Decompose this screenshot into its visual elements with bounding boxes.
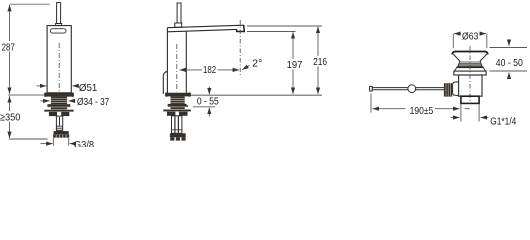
faucet body (side view) (47, 26, 71, 93)
middle nut (168, 104, 188, 107)
dimension 287 upper segment with up arrow (9, 5, 11, 41)
svg-text:182: 182 (203, 65, 216, 76)
197 lower arrow (down at deck) (292, 69, 294, 94)
G1 1/4 extension lines (461, 104, 479, 122)
supply hose tube (56, 116, 62, 131)
middle hose fitting feet (170, 137, 174, 140)
washer (widest) (44, 110, 73, 112)
svg-text:Ø34 - 37: Ø34 - 37 (77, 97, 109, 108)
extension line top (287) (10, 3, 50, 5)
middle threaded shank (171, 96, 185, 104)
rod ball joint (408, 85, 416, 93)
G1 1/4 left arrow (outside pointing right) (451, 117, 460, 119)
rod end cap (370, 86, 373, 91)
skirt to collar (454, 68, 485, 71)
svg-text:2°: 2° (252, 59, 262, 70)
spout end-on window (50, 29, 66, 33)
dimension arrow right (diameter 51) (72, 85, 77, 87)
tailpiece (thick) (461, 96, 479, 103)
svg-text:0 - 55: 0 - 55 (197, 97, 219, 108)
spout bottom line (167, 29, 236, 31)
body centerline dashed (58, 43, 60, 92)
197 upper arrow (up) (292, 32, 294, 59)
mounting nut (47, 104, 70, 107)
0-55 lower extension line (193, 106, 215, 108)
spout tip and aerator (237, 25, 245, 31)
middle centerline dashed (176, 44, 178, 92)
dimension 287 lower segment with down arrow at deck (9, 52, 11, 94)
middle hose fitting block (170, 133, 186, 137)
182 dimension left arrow at centerline (180, 69, 202, 71)
middle washer widest (163, 109, 191, 111)
ridge band (458, 61, 482, 67)
hose end fitting lower (hatched) (53, 134, 69, 137)
body right edge (185, 32, 187, 93)
dimension &ge;350 lower segment with down arrow at hose end line (9, 122, 11, 139)
diameter 63 extension line left (452, 34, 454, 49)
svg-text:G1*1/4: G1*1/4 (490, 117, 516, 128)
svg-text:190±5: 190±5 (410, 106, 434, 117)
0-55 lower arrow (up) (208, 108, 210, 117)
hose end fitting upper (54, 131, 69, 134)
40-50 lower arrow (up) (508, 73, 510, 78)
drain taper right (480, 54, 487, 61)
drain body (459, 75, 482, 96)
collar (454, 71, 486, 75)
drain taper left (453, 54, 460, 61)
lever (front view) (177, 3, 181, 23)
deck line (middle view) (191, 94, 322, 96)
40-50 upper extension line (490, 47, 528, 49)
middle base flange (dark) (166, 93, 191, 97)
deck line (left view) (8, 94, 44, 96)
dimension arrow left (diameter 51) (37, 85, 47, 87)
216 upper arrow (up) (317, 27, 319, 56)
middle spacer (171, 107, 185, 109)
base flange (dark) (45, 93, 74, 97)
diameter 63 extension line right (486, 34, 488, 49)
svg-text:Ø63: Ø63 (462, 32, 478, 43)
lever base flare (side view) (56, 23, 62, 25)
dimension arrow left (diameter 34-37) (40, 100, 49, 102)
extension line spout outlet level (247, 31, 296, 33)
spacer ring (51, 107, 67, 109)
dimension arrow right (diameter 34-37) (69, 100, 76, 102)
190+-5 overshoot dash to centerline (465, 108, 471, 110)
diameter 63 dim line segments with outward arrows (454, 33, 461, 35)
hose end level line (9, 138, 48, 140)
svg-text:287: 287 (2, 43, 15, 54)
dimension &ge;350 upper segment with up arrow below deck (9, 96, 11, 111)
0-55 upper arrow (down at deck) (208, 87, 210, 95)
seal step (dark) (456, 67, 484, 69)
190+-5 left arrow (373, 108, 406, 110)
pop-up rod hook (163, 71, 167, 94)
spout top line (2 deg slope) (167, 25, 243, 28)
lever base (175, 23, 182, 27)
rod nut (dark hatched) (444, 83, 452, 96)
threaded shank (dark with ridges) (51, 97, 67, 105)
middle hoses (172, 116, 182, 134)
svg-text:197: 197 (287, 60, 303, 71)
middle lock nut halves (167, 112, 175, 116)
G3/8 arrow left (41, 143, 53, 145)
label 0 - 55 white backing (187, 97, 222, 105)
216 lower arrow (down at deck) (317, 66, 319, 94)
svg-text:216: 216 (313, 57, 327, 68)
G3/8 arrow right (70, 143, 73, 145)
svg-text:Ø51: Ø51 (79, 83, 98, 94)
lock nut halves (49, 112, 57, 116)
rod stub on body (453, 82, 459, 96)
body left edge (166, 28, 168, 93)
horizontal pop-up rod (372, 88, 444, 90)
svg-text:40 - 50: 40 - 50 (496, 58, 523, 69)
faucet lever (side view) (57, 3, 61, 24)
extension line spout top level (247, 25, 322, 27)
svg-text:G3/8: G3/8 (74, 140, 94, 147)
svg-text:≥350: ≥350 (0, 112, 20, 123)
spout tip dashed extension (239, 20, 241, 76)
2 degree leader arrow (242, 66, 249, 70)
drain centerline dashed (469, 46, 471, 104)
rod left extension line (370, 94, 372, 113)
40-50 lower extension line (490, 70, 528, 72)
G3/8 extension ticks (54, 138, 69, 146)
G1 1/4 right arrow (outside pointing left) (481, 117, 489, 119)
182 dimension right arrow at spout tip line (218, 69, 240, 71)
40-50 upper arrow (down) (508, 41, 510, 46)
190+-5 right arrow (435, 108, 459, 110)
drain cap (thick top with curled ends) (452, 52, 487, 55)
